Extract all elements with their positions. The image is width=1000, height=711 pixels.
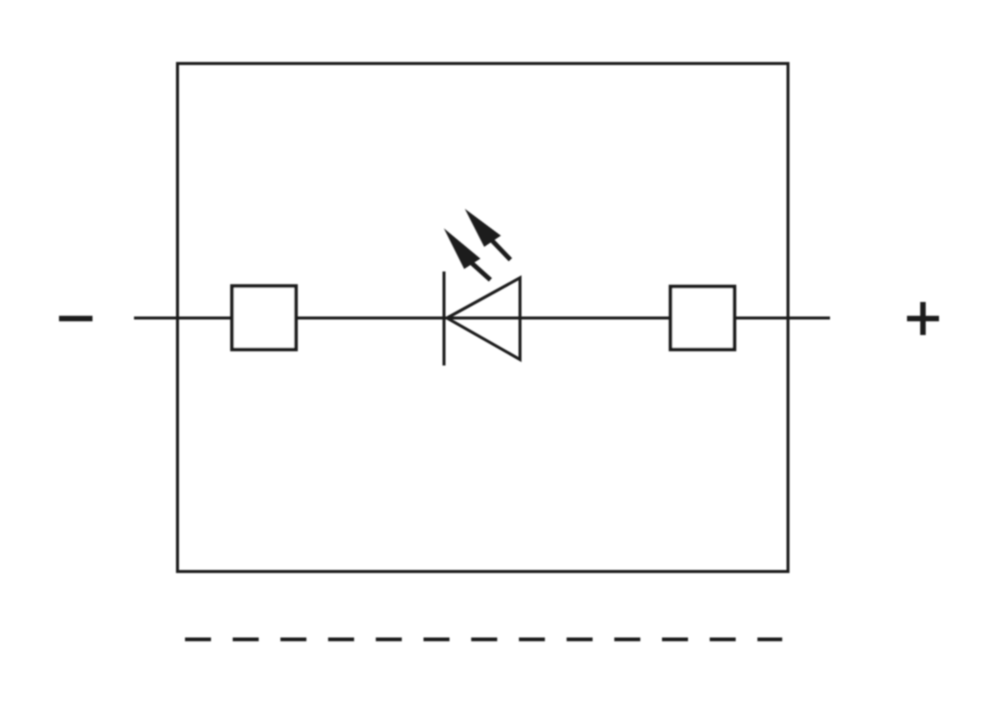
minus polarity label (59, 316, 93, 322)
LED D1 cathode bar (443, 272, 446, 366)
wire (134, 317, 830, 320)
LED emission arrow 2 head (465, 209, 501, 247)
plus polarity label (907, 302, 939, 335)
LED emission arrow 2 tail (492, 241, 510, 260)
module outline (178, 64, 789, 572)
clamp terminal (left square) (232, 286, 296, 350)
LED emission arrow 1 tail (472, 263, 491, 280)
LED emission arrow 1 head (444, 228, 481, 269)
rail marking (dashed line) (185, 638, 782, 642)
clamp terminal (right square) (671, 287, 735, 350)
LED D1 triangle (447, 278, 520, 360)
